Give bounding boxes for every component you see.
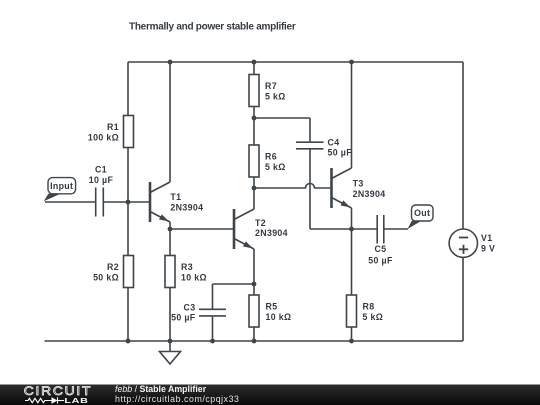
svg-text:C4: C4 (328, 137, 340, 147)
svg-text:2N3904: 2N3904 (255, 228, 288, 238)
svg-text:2N3904: 2N3904 (353, 189, 386, 199)
svg-text:R6: R6 (265, 152, 277, 162)
svg-text:2N3904: 2N3904 (170, 202, 203, 212)
svg-text:C5: C5 (375, 244, 387, 254)
svg-text:R7: R7 (265, 81, 277, 91)
svg-text:R2: R2 (107, 262, 119, 272)
svg-text:V1: V1 (481, 233, 492, 243)
svg-text:9 V: 9 V (481, 243, 495, 253)
svg-text:10 kΩ: 10 kΩ (266, 312, 292, 322)
svg-text:Out: Out (414, 208, 430, 218)
svg-text:T2: T2 (255, 218, 266, 228)
svg-text:10 kΩ: 10 kΩ (181, 272, 207, 282)
svg-text:R3: R3 (181, 262, 193, 272)
svg-text:50 µF: 50 µF (171, 313, 196, 323)
svg-text:C3: C3 (184, 302, 196, 312)
svg-text:T3: T3 (353, 179, 364, 189)
svg-text:Input: Input (50, 181, 73, 191)
svg-text:LAB: LAB (64, 397, 88, 405)
svg-text:50 µF: 50 µF (368, 256, 393, 266)
svg-text:10 µF: 10 µF (89, 175, 114, 185)
svg-text:T1: T1 (170, 192, 181, 202)
svg-text:5 kΩ: 5 kΩ (363, 312, 384, 322)
svg-text:R1: R1 (107, 122, 119, 132)
svg-text:R8: R8 (363, 302, 375, 312)
svg-text:R5: R5 (266, 302, 278, 312)
svg-text:febb / Stable Amplifier: febb / Stable Amplifier (115, 384, 207, 394)
svg-text:5 kΩ: 5 kΩ (265, 162, 286, 172)
svg-text:50 µF: 50 µF (328, 148, 353, 158)
svg-text:C1: C1 (95, 165, 107, 175)
svg-text:Thermally and power stable amp: Thermally and power stable amplifier (129, 22, 296, 33)
svg-text:http://circuitlab.com/cpqjx33: http://circuitlab.com/cpqjx33 (115, 394, 240, 404)
svg-text:50 kΩ: 50 kΩ (93, 272, 119, 282)
svg-text:5 kΩ: 5 kΩ (265, 91, 286, 101)
svg-text:100 kΩ: 100 kΩ (88, 132, 119, 142)
